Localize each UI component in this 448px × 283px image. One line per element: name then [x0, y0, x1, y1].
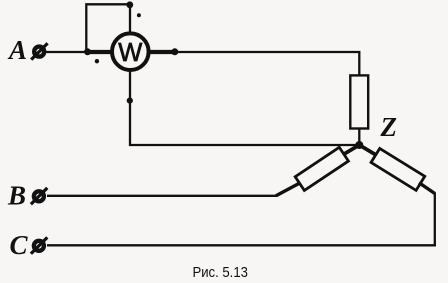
wattmeter W1: [112, 33, 149, 70]
node A1: [84, 48, 91, 55]
wire Za to star: [358, 129, 360, 146]
wire A2 to resistor Za: [175, 52, 359, 76]
node star point: [355, 141, 363, 149]
svg-text:W: W: [118, 39, 142, 67]
svg-text:A: A: [7, 35, 27, 65]
polarity dot voltage coil: [137, 13, 141, 17]
wire star to Zc: [359, 145, 376, 155]
wire A lead: [46, 51, 88, 53]
wire C horizontal: [47, 244, 436, 246]
polarity dot current coil: [95, 59, 99, 63]
resistor Zb: [295, 147, 348, 190]
wire Zb to B corner: [276, 183, 301, 196]
wire B horizontal: [47, 195, 277, 197]
node voltage return: [127, 98, 133, 104]
wire current coil left (thick): [88, 50, 114, 54]
svg-text:B: B: [7, 181, 26, 211]
wire Zc to C corner: [419, 183, 435, 194]
terminal A: [31, 43, 47, 59]
wire current coil right (thick): [148, 50, 175, 54]
terminal B: [31, 188, 47, 204]
wire C vertical: [434, 193, 436, 247]
wire star to Zb: [342, 145, 359, 155]
svg-text:C: C: [10, 230, 29, 260]
svg-text:Рис. 5.13: Рис. 5.13: [192, 264, 248, 281]
resistor Zc: [371, 148, 425, 190]
wire bracket drop: [129, 4, 131, 32]
resistor Za: [350, 75, 368, 128]
node A2: [171, 48, 178, 55]
wire voltage coil return: [130, 70, 359, 145]
wire voltage-coil bracket: [86, 4, 130, 52]
svg-text:Z: Z: [380, 112, 398, 142]
node bracket top: [126, 1, 133, 8]
terminal C: [31, 237, 47, 253]
